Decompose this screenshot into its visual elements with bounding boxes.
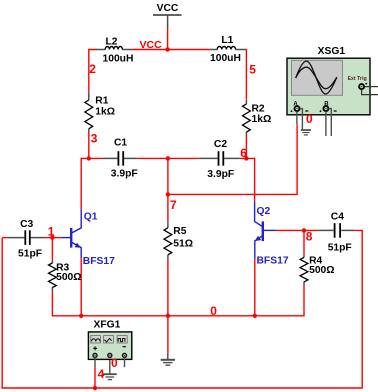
svg-text:BFS17: BFS17	[83, 256, 115, 267]
svg-text:6: 6	[240, 146, 247, 160]
svg-text:51pF: 51pF	[328, 242, 352, 253]
svg-text:XSG1: XSG1	[318, 46, 346, 57]
svg-text:C4: C4	[331, 212, 344, 223]
svg-text:BFS17: BFS17	[257, 255, 289, 266]
svg-text:0: 0	[111, 356, 118, 370]
svg-text:500Ω: 500Ω	[56, 272, 81, 283]
svg-text:51Ω: 51Ω	[173, 239, 193, 250]
svg-text:2: 2	[89, 62, 96, 76]
svg-text:L2: L2	[106, 37, 118, 48]
svg-text:C1: C1	[114, 138, 127, 149]
svg-text:1kΩ: 1kΩ	[252, 114, 272, 125]
svg-text:R1: R1	[95, 96, 108, 107]
svg-text:VCC: VCC	[157, 3, 179, 14]
svg-text:0: 0	[306, 112, 313, 126]
svg-text:3.9pF: 3.9pF	[111, 169, 138, 180]
svg-text:0: 0	[210, 304, 217, 318]
svg-text:3: 3	[91, 131, 98, 145]
svg-text:3.9pF: 3.9pF	[207, 169, 234, 180]
svg-text:L1: L1	[221, 35, 233, 46]
svg-text:Q2: Q2	[257, 206, 271, 217]
svg-text:Q1: Q1	[84, 211, 98, 222]
svg-text:100uH: 100uH	[103, 54, 134, 65]
svg-text:XFG1: XFG1	[94, 320, 121, 331]
svg-text:VCC: VCC	[140, 39, 163, 51]
svg-text:Ext Trig: Ext Trig	[348, 76, 367, 82]
svg-text:7: 7	[170, 198, 177, 212]
svg-text:C2: C2	[214, 139, 227, 150]
svg-text:100uH: 100uH	[210, 53, 241, 64]
svg-text:8: 8	[306, 230, 313, 244]
svg-text:4: 4	[98, 367, 105, 381]
svg-text:500Ω: 500Ω	[309, 265, 334, 276]
svg-text:1: 1	[48, 224, 55, 238]
svg-text:1kΩ: 1kΩ	[95, 107, 115, 118]
svg-text:R5: R5	[173, 226, 186, 237]
svg-text:51pF: 51pF	[18, 249, 42, 260]
svg-text:C3: C3	[20, 219, 33, 230]
svg-text:5: 5	[249, 63, 256, 77]
